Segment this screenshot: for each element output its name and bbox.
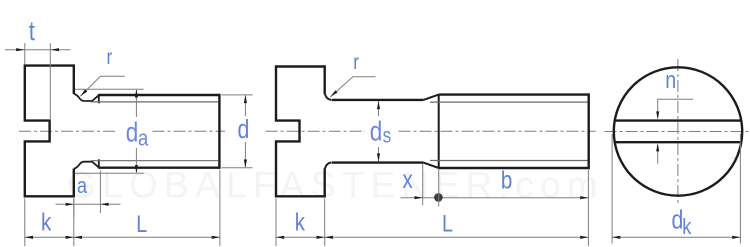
label k view1: [41, 207, 52, 235]
r leader arrow view2: [330, 90, 337, 97]
L arrow right view2: [580, 236, 588, 239]
d_a extension bottom: [75, 172, 144, 174]
n arrow up: [656, 143, 659, 151]
t extension left: [24, 43, 26, 64]
L extension right view2: [587, 170, 589, 246]
x arrow: [415, 196, 423, 199]
head view1: [25, 66, 74, 197]
k arrow left view1: [25, 236, 33, 239]
b arrow right: [580, 196, 588, 199]
L arrow left view2: [325, 236, 333, 239]
thread crest bottom view1: [99, 166, 220, 168]
svg-text:r: r: [107, 47, 113, 70]
k dimension line view2: [276, 236, 325, 238]
d_k extension left: [611, 134, 613, 244]
under-head fillet top view1: [74, 94, 99, 101]
svg-text:d: d: [126, 117, 139, 148]
label d view1: [238, 115, 250, 145]
L extension right view1: [219, 170, 221, 246]
d arrow up: [244, 95, 247, 103]
centerline view2 right part: [399, 130, 596, 132]
centerline view1 left part: [19, 130, 118, 132]
label L view1: [136, 210, 147, 237]
thread crest top view1: [99, 94, 220, 96]
a arrow right: [100, 203, 108, 206]
k/L shared extension view2: [324, 198, 326, 246]
label t: [29, 17, 35, 47]
d_a dimension line upper: [135, 90, 137, 117]
shank bottom view2: [332, 161, 424, 163]
k arrow right view1: [66, 236, 74, 239]
screw end view2: [588, 93, 590, 169]
d_k dimension line: [612, 236, 740, 238]
svg-text:r: r: [353, 52, 359, 75]
slot bottom line: [615, 141, 742, 143]
d dimension line lower: [244, 142, 246, 167]
a extension left (below head): [73, 198, 75, 217]
k extension left view1: [24, 198, 26, 246]
label k view2: [295, 207, 306, 235]
t extension right: [49, 43, 51, 120]
label x view2: [403, 165, 414, 193]
thread runout taper bottom view2: [423, 163, 438, 168]
thread crest bottom view2: [439, 167, 589, 169]
shank top view2: [332, 99, 424, 101]
d_s arrow up: [377, 101, 380, 109]
d_a extension top: [75, 88, 144, 90]
svg-text:L: L: [136, 210, 147, 237]
d_s dimension line upper: [378, 101, 380, 116]
centerline view1 right part: [153, 130, 226, 132]
label d_s: [370, 116, 383, 147]
label r view1: [107, 47, 113, 70]
d_s arrow down: [377, 153, 380, 161]
head circle: [614, 67, 742, 195]
d_k extension right: [739, 134, 741, 244]
d_k arrow right: [732, 236, 740, 239]
k arrow left view2: [276, 236, 284, 239]
r leader view1: [80, 76, 124, 96]
d_k arrow left: [612, 236, 620, 239]
t arrow right: [51, 48, 59, 51]
thread root bottom view2: [430, 160, 588, 162]
fillet top view2: [325, 94, 332, 100]
thread root top view2: [430, 101, 588, 103]
label b view2: [501, 166, 512, 194]
thread crest top view2: [439, 93, 589, 95]
d extension top view1: [222, 94, 253, 96]
svg-text:t: t: [29, 17, 35, 47]
svg-text:d: d: [238, 115, 250, 145]
svg-text:L: L: [442, 209, 453, 236]
horizontal centerline view3: [605, 131, 750, 133]
b start dot: [434, 193, 443, 202]
n lower leader: [657, 145, 659, 164]
thread start stub bottom view1: [98, 159, 100, 168]
d_s dimension line lower: [378, 147, 380, 161]
b extension below thread start: [438, 169, 440, 207]
n arrow down: [656, 111, 659, 119]
L arrow left view1: [74, 236, 82, 239]
svg-text:GLOBALFASTENER.com: GLOBALFASTENER.com: [67, 165, 604, 206]
vertical centerline view3: [677, 59, 679, 204]
thread start stub top view1: [98, 94, 100, 103]
r leader arrow view1: [80, 89, 87, 96]
head view2 right face lower: [324, 169, 326, 198]
t arrow left: [16, 48, 24, 51]
L arrow right view1: [212, 236, 220, 239]
svg-text:x: x: [403, 165, 414, 193]
svg-text:b: b: [501, 166, 512, 194]
slot top line: [615, 119, 742, 121]
svg-text:s: s: [383, 125, 392, 148]
x extension line: [422, 164, 424, 206]
head view1 right face upper: [73, 64, 75, 94]
d_a arrow down: [135, 165, 138, 173]
d_a arrow up: [135, 89, 138, 97]
svg-text:k: k: [295, 207, 306, 235]
d extension bottom view1: [222, 167, 253, 169]
thread runout taper top view2: [423, 95, 438, 100]
svg-text:d: d: [370, 116, 383, 147]
svg-text:a: a: [77, 174, 88, 198]
svg-text:n: n: [665, 66, 676, 93]
under-head fillet bottom view1: [74, 162, 99, 169]
n leader shelf: [658, 99, 693, 117]
svg-text:k: k: [682, 215, 692, 239]
svg-text:a: a: [138, 126, 149, 151]
label r view2: [353, 52, 359, 75]
label d_k: [672, 206, 684, 236]
head view1 right face lower: [73, 169, 75, 198]
d_a dimension line lower: [135, 148, 137, 173]
k arrow right view2: [317, 236, 325, 239]
centerline view2 left part: [266, 130, 365, 132]
a extension right: [99, 171, 101, 214]
label n view3: [665, 66, 676, 93]
fillet bottom view2: [325, 163, 332, 169]
label a view1: [77, 174, 88, 198]
label L view2: [442, 209, 453, 236]
x/b dimension line: [401, 197, 589, 199]
d dimension line upper: [244, 96, 246, 116]
k extension left view2: [275, 198, 277, 246]
a arrow left: [66, 203, 74, 206]
thread root top view1: [91, 101, 218, 103]
L dimension line view2: [325, 236, 589, 238]
d arrow down: [244, 160, 247, 168]
k/L shared extension view1: [73, 198, 75, 246]
head view2: [276, 67, 325, 197]
svg-text:k: k: [41, 207, 52, 235]
thread root bottom view1: [91, 160, 218, 162]
screw end view1: [218, 94, 220, 169]
k dimension line view1: [25, 236, 74, 238]
thread start line view2: [438, 95, 440, 168]
head view2 right face upper: [324, 65, 326, 94]
a dimension line: [56, 203, 121, 205]
L dimension line view1: [74, 236, 220, 238]
label d_a: [126, 117, 139, 148]
r leader view2: [330, 77, 375, 97]
t dimension line: [5, 49, 70, 51]
